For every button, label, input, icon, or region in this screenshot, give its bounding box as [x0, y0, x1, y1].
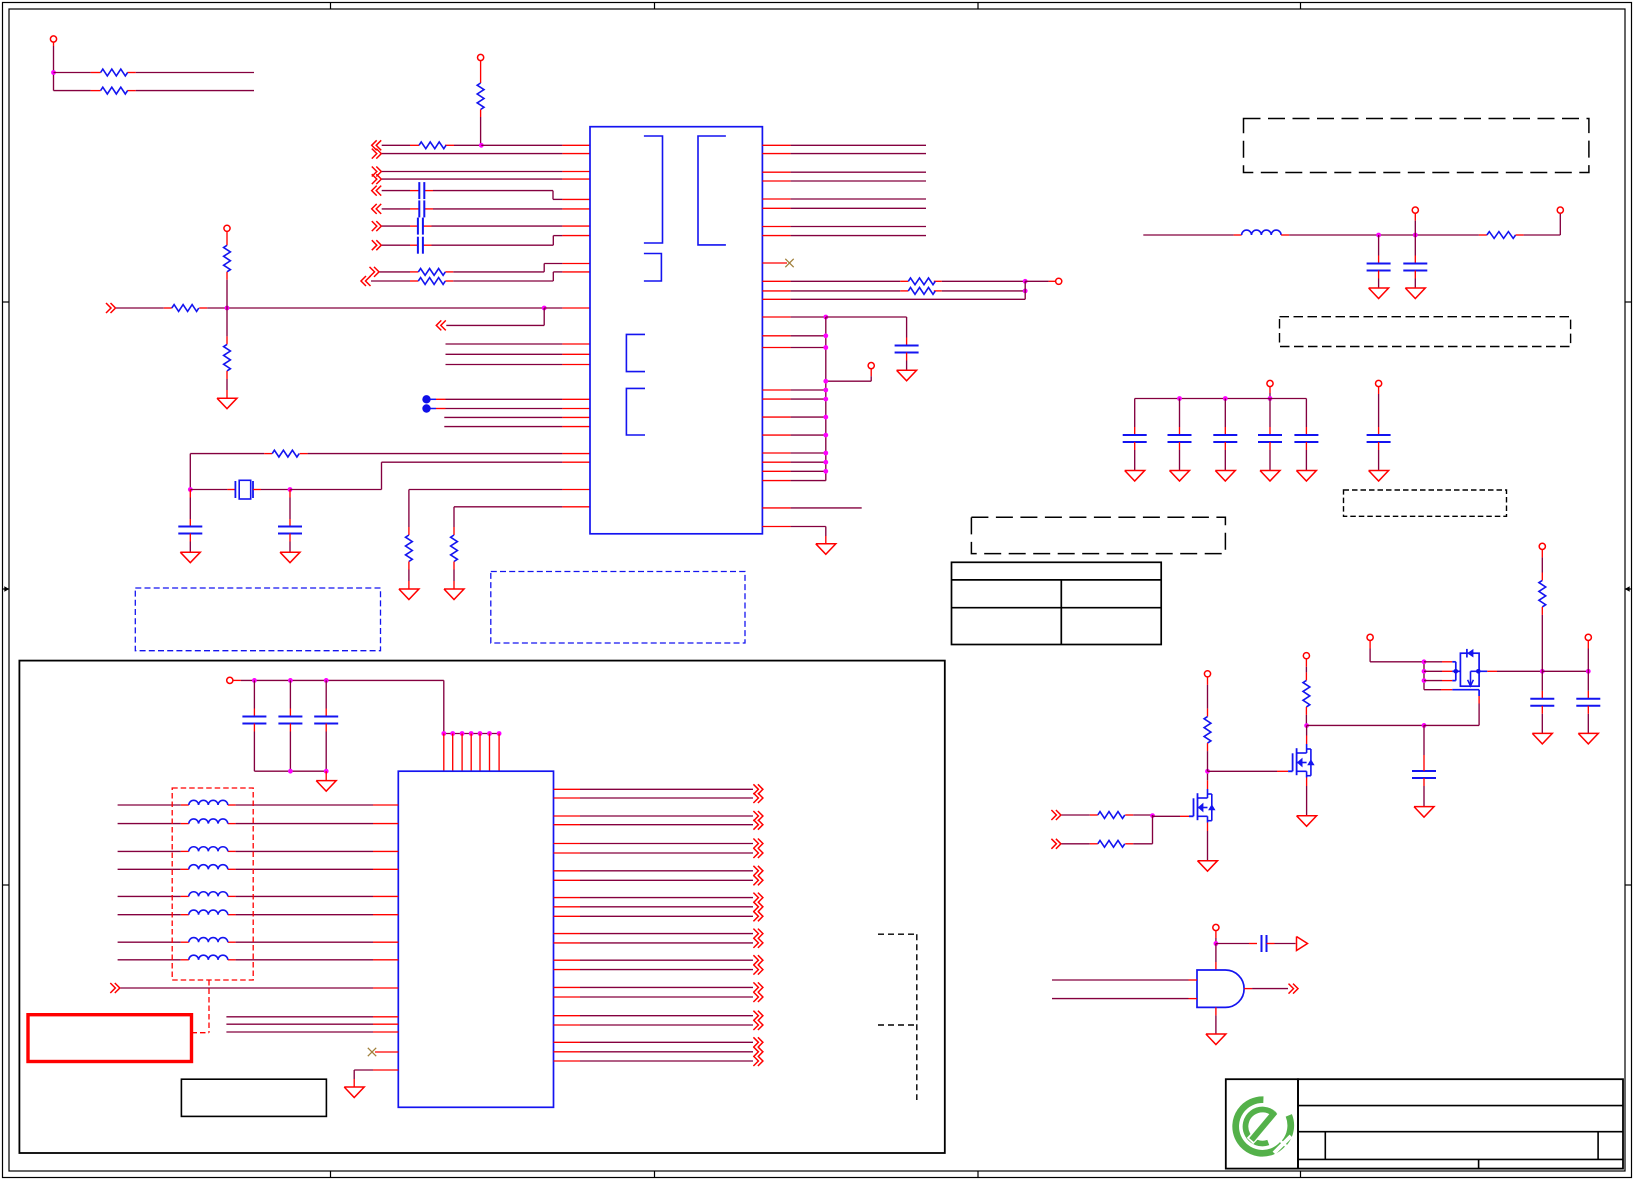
power pin VCC R8	[224, 225, 230, 245]
net connector out row3	[372, 167, 382, 177]
net connector out	[753, 1020, 763, 1030]
wire	[382, 461, 591, 463]
capacitor C8	[1367, 235, 1391, 288]
wire	[188, 454, 193, 492]
wire	[382, 171, 590, 173]
ground C16	[1414, 807, 1434, 818]
capacitor C17	[1530, 671, 1554, 733]
wire Q3 strap1	[1424, 662, 1456, 681]
wire	[454, 507, 590, 535]
wire	[762, 388, 828, 393]
resistor R2	[101, 87, 128, 94]
net connector in row10	[361, 276, 371, 286]
capacitor C3 series	[418, 218, 423, 235]
wire	[190, 453, 590, 455]
wire	[253, 462, 382, 492]
border center arrow left	[3, 586, 10, 592]
wire	[762, 235, 926, 237]
capacitor C13	[1258, 399, 1282, 471]
IC U1 inner bracket A	[644, 136, 663, 243]
ground C6	[280, 552, 300, 563]
net connector out	[753, 938, 763, 948]
wire	[1516, 213, 1561, 235]
wire Q3 strap tie	[1422, 659, 1427, 689]
wire	[444, 426, 590, 428]
transistor Q2 NMOS	[1288, 744, 1315, 778]
net connector out	[753, 965, 763, 975]
capacitor C11	[1168, 399, 1192, 471]
wire	[762, 397, 828, 402]
ground Q2	[1297, 778, 1317, 827]
transistor Q1 NMOS	[1189, 789, 1216, 823]
wire	[382, 143, 590, 148]
crystal Y1	[235, 480, 253, 499]
net connector out	[753, 982, 763, 992]
net connector out	[753, 1037, 763, 1047]
wire	[54, 72, 255, 74]
wire	[554, 788, 754, 790]
inductor L2	[189, 800, 228, 805]
inductor L7	[189, 910, 228, 915]
net connector out U3	[1289, 984, 1299, 994]
wire Q3 strap2	[1424, 669, 1460, 674]
border center arrow right	[1625, 586, 1632, 592]
resistor R15	[1487, 232, 1516, 239]
black small-dash annotation box right	[1344, 490, 1507, 516]
AND gate U3	[1197, 970, 1244, 1007]
red dashed link	[192, 980, 210, 1033]
capacitor C4 series	[418, 237, 423, 254]
wire	[382, 153, 590, 155]
wire	[554, 1060, 754, 1062]
wire	[554, 1041, 754, 1043]
wire	[380, 264, 591, 272]
wire	[762, 226, 926, 228]
capacitor C9	[1403, 235, 1427, 288]
net connector out	[753, 955, 763, 965]
border zone tick marks left	[3, 302, 10, 885]
power pin VCC R20	[1539, 543, 1545, 580]
resistor R12	[451, 535, 458, 581]
net connector out	[753, 784, 763, 794]
inductor L1	[1242, 230, 1282, 235]
ground U2	[344, 1087, 364, 1098]
wire	[116, 306, 590, 311]
power pin VCC top-left	[50, 36, 56, 46]
wire	[762, 198, 926, 200]
wire	[554, 986, 754, 988]
wire	[554, 959, 754, 961]
ground C11	[1170, 471, 1190, 482]
power pin VCC R3	[478, 54, 484, 83]
wire	[190, 489, 235, 491]
wire	[554, 797, 754, 799]
power pin VCC filter out	[1557, 207, 1563, 213]
ground C9	[1405, 288, 1425, 299]
net connector out	[753, 992, 763, 1002]
net connector out row9	[370, 267, 380, 277]
inductor L9	[189, 955, 228, 960]
resistor R5	[418, 269, 445, 276]
IC U1 main controller body	[590, 127, 762, 534]
wire input A	[1052, 979, 1197, 981]
IC U1 inner bracket B	[698, 136, 726, 245]
resistor R20	[1539, 580, 1546, 671]
ground C12	[1215, 471, 1235, 482]
net connector out	[753, 866, 763, 876]
wire	[446, 308, 544, 325]
wire	[382, 191, 590, 200]
resistor R16	[1098, 812, 1125, 819]
net connector out row2	[372, 149, 382, 159]
wire	[554, 870, 754, 872]
ground Q1	[1198, 823, 1218, 872]
wire	[1208, 770, 1289, 772]
wire	[554, 879, 754, 881]
resistor R19	[1303, 680, 1310, 725]
wire	[118, 914, 399, 916]
company logo	[1236, 1100, 1291, 1154]
wire	[762, 507, 861, 509]
net connector in row12	[436, 320, 446, 330]
resistor R6	[418, 278, 445, 285]
wire	[371, 272, 590, 281]
net connector out	[753, 1047, 763, 1057]
wire input B	[1052, 998, 1197, 1000]
wire	[1205, 769, 1210, 789]
wire	[382, 178, 590, 180]
wire	[409, 490, 590, 536]
wire	[1307, 723, 1480, 728]
border zone tick marks top	[331, 3, 1301, 10]
net connector out	[753, 811, 763, 821]
net connector in row6	[372, 204, 382, 214]
black long-dash annotation box middle	[971, 517, 1225, 553]
IC U2 PHY body	[398, 771, 553, 1107]
wire	[762, 180, 926, 182]
IC U1 inner bracket D	[626, 334, 645, 371]
wire	[762, 415, 828, 420]
capacitor C7	[895, 346, 919, 371]
ground C10	[1125, 471, 1145, 482]
net connector out row4	[372, 174, 382, 184]
wire	[254, 769, 328, 774]
wire	[762, 345, 828, 350]
net connector in row1	[372, 140, 382, 150]
wire VDD bus	[762, 315, 828, 481]
power pin VCC filter mid	[1412, 207, 1418, 235]
net connector out	[753, 839, 763, 849]
wire	[1061, 815, 1152, 844]
wire	[762, 144, 926, 146]
wire	[118, 941, 399, 943]
power pin VCC Q2 drain	[1303, 653, 1309, 681]
net connector out	[753, 911, 763, 921]
inductor L8	[189, 938, 228, 943]
no-connect pin	[762, 259, 793, 267]
wire	[382, 225, 590, 227]
wire	[1143, 234, 1241, 236]
inductor L4	[189, 847, 228, 852]
wire	[554, 852, 754, 854]
border zone tick marks bottom	[331, 1171, 1301, 1178]
ground C5	[180, 552, 200, 563]
wire	[382, 236, 590, 246]
capacitor C19 series	[1262, 935, 1267, 952]
inductor L5	[189, 865, 228, 870]
resistor R13	[908, 278, 935, 285]
wire	[480, 110, 482, 146]
wire	[554, 815, 754, 817]
title block main table	[1298, 1079, 1623, 1168]
wire Q3 strap3	[1424, 680, 1456, 682]
black annotation box	[181, 1079, 326, 1116]
wire	[762, 171, 926, 173]
resistor R14	[908, 288, 935, 295]
capacitor C14	[1294, 399, 1318, 471]
wire	[554, 906, 754, 908]
resistor R17	[1098, 840, 1125, 847]
wire node SW	[1304, 723, 1309, 744]
power pin VCC R13	[1056, 278, 1062, 284]
resistor R10	[272, 450, 299, 457]
net connector out	[753, 929, 763, 939]
ground C8	[1369, 288, 1389, 299]
transistor Q3 PMOS	[1460, 649, 1487, 686]
blue dashed annotation box 1	[135, 588, 380, 651]
ground R9	[217, 390, 237, 409]
wire	[762, 527, 825, 544]
wire U2 top pins	[444, 734, 499, 772]
net connector in row5	[372, 186, 382, 196]
wire	[762, 333, 828, 338]
ground R12	[444, 581, 464, 600]
power pin VCC output	[1585, 634, 1591, 671]
wire	[118, 868, 399, 870]
wire	[762, 153, 926, 155]
inductor L3	[189, 819, 228, 824]
wire	[762, 480, 825, 482]
capacitor C18	[1576, 671, 1600, 733]
wire	[826, 317, 907, 346]
ground C7	[897, 370, 917, 381]
wire	[446, 364, 591, 366]
blue dashed annotation box 2	[491, 572, 745, 644]
ground C18	[1578, 733, 1598, 744]
wire	[241, 678, 444, 734]
wire	[554, 824, 754, 826]
wire	[226, 1016, 398, 1018]
ground IC1	[816, 544, 836, 555]
net connector out	[753, 1011, 763, 1021]
wire	[554, 915, 754, 917]
wire	[762, 207, 926, 209]
power pin VCC U2	[227, 677, 241, 683]
red highlight box	[28, 1015, 192, 1062]
wire	[444, 416, 590, 418]
power pin VCC Q1 drain	[1204, 671, 1210, 717]
wire	[120, 987, 398, 989]
power pin VCC C15	[1376, 380, 1382, 435]
capacitor C1 series	[419, 182, 424, 199]
capacitor C22	[314, 680, 338, 771]
power pin VCC U3	[1213, 924, 1219, 945]
wire output	[1244, 988, 1288, 990]
wire	[118, 895, 399, 897]
wire	[554, 843, 754, 845]
wire	[1061, 813, 1189, 818]
node marker blue row14	[422, 404, 436, 412]
wire	[118, 823, 399, 825]
ground C13	[1260, 471, 1280, 482]
open arrow out	[1297, 937, 1308, 951]
capacitor C15	[1367, 435, 1391, 471]
wire	[762, 469, 828, 474]
resistor R8 pull-up	[224, 245, 231, 308]
resistor R18	[1204, 717, 1211, 772]
wire	[762, 289, 1027, 294]
wire U2 top bus	[441, 731, 501, 736]
wire	[762, 433, 828, 438]
net connector out gate2	[1051, 839, 1061, 849]
power pin VCC bus	[823, 363, 874, 384]
net connector out	[753, 875, 763, 885]
net connector out	[753, 848, 763, 858]
wire	[226, 1023, 398, 1025]
wire	[51, 46, 56, 91]
wire	[118, 959, 399, 961]
wire	[446, 353, 591, 355]
node marker blue row13	[422, 395, 436, 403]
ground U2 caps	[316, 771, 336, 791]
wire	[762, 281, 1025, 299]
wire	[1215, 944, 1217, 971]
wire	[436, 398, 590, 400]
IC U1 inner bracket E	[626, 388, 645, 435]
IC U1 inner bracket C	[644, 254, 662, 282]
wire cap bank bus	[1135, 396, 1307, 401]
ground C15	[1369, 471, 1389, 482]
net connector out	[753, 893, 763, 903]
wire	[554, 1015, 754, 1017]
capacitor C12	[1213, 399, 1237, 471]
title block logo cell	[1226, 1079, 1298, 1168]
wire	[54, 90, 255, 92]
border zone tick marks right	[1625, 302, 1632, 885]
wire	[762, 451, 828, 456]
wire	[1216, 943, 1257, 945]
resistor R1	[101, 69, 128, 76]
wire	[554, 897, 754, 899]
resistor R11	[406, 535, 413, 581]
power pin VCC cap bank	[1267, 380, 1273, 401]
wire	[554, 1024, 754, 1026]
net connector out row7	[372, 221, 382, 231]
wire	[118, 850, 399, 852]
wire	[554, 933, 754, 935]
net connector out	[753, 1056, 763, 1066]
wire	[354, 1070, 398, 1087]
wire	[554, 942, 754, 944]
capacitor C16	[1412, 725, 1436, 806]
capacitor C21	[278, 680, 302, 771]
net connector out U2 input	[110, 983, 120, 993]
net connector out gate1	[1051, 810, 1061, 820]
black long-dash annotation box top-right	[1244, 119, 1589, 173]
inductor L6	[189, 892, 228, 897]
wire	[1267, 943, 1296, 945]
wire	[118, 804, 399, 806]
wire	[436, 408, 590, 410]
module boundary box	[19, 661, 944, 1153]
net connector out	[753, 793, 763, 803]
ground U3	[1206, 1007, 1226, 1044]
revision table	[952, 562, 1162, 644]
capacitor C2 series	[419, 200, 424, 217]
net connector out row11	[106, 303, 116, 313]
capacitor C10	[1123, 399, 1147, 471]
capacitor C6	[278, 490, 302, 553]
wire	[762, 460, 828, 465]
ground R11	[399, 581, 419, 600]
wire Q3 output	[1487, 669, 1590, 674]
wire	[226, 1031, 398, 1033]
net connector out	[753, 902, 763, 912]
wire Q3 strap4 source	[1424, 690, 1479, 726]
ground C17	[1532, 733, 1552, 744]
wire	[382, 208, 590, 210]
wire	[762, 279, 1055, 284]
black dashed partial box	[878, 934, 917, 1100]
power pin VCC Q3 gate	[1367, 634, 1424, 661]
resistor R4	[419, 142, 446, 149]
ground C14	[1296, 471, 1316, 482]
no-connect pin U2	[368, 1048, 399, 1056]
wire	[1281, 233, 1487, 238]
capacitor C20	[242, 680, 266, 771]
wire	[554, 969, 754, 971]
resistor R3	[477, 83, 484, 110]
capacitor C5	[178, 490, 202, 553]
net connector out row8	[372, 240, 382, 250]
black mid-dash annotation box right	[1280, 317, 1571, 347]
resistor R7	[172, 305, 199, 312]
wire	[554, 996, 754, 998]
resistor R9 pull-down	[224, 308, 231, 390]
red dashed magnetics box	[172, 788, 253, 980]
wire	[554, 1051, 754, 1053]
wire	[446, 343, 591, 345]
net connector out	[753, 820, 763, 830]
